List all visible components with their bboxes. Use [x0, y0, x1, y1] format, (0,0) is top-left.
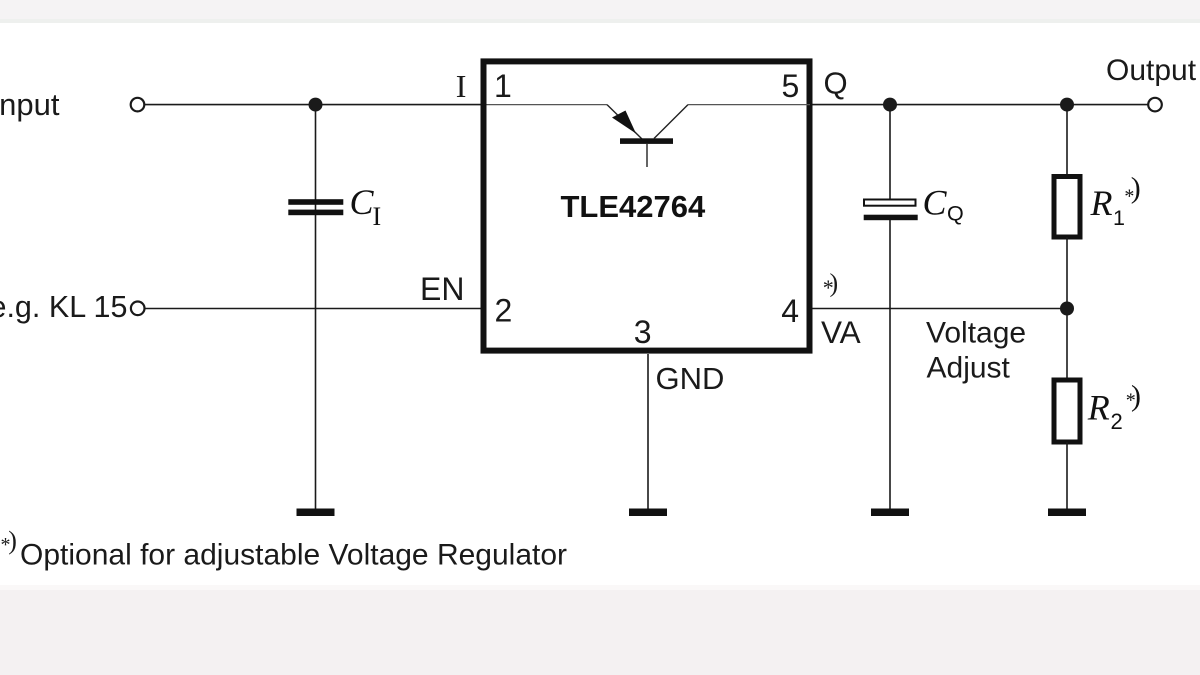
ground R2 [1048, 509, 1086, 517]
svg-text:I: I [373, 202, 382, 231]
label Voltage Adjust [926, 317, 1026, 385]
svg-text:C: C [350, 182, 375, 222]
wire R1 top [1066, 105, 1068, 176]
svg-text:I: I [456, 68, 467, 104]
capacitor C_Q [864, 200, 918, 221]
wire R2 bottom [1066, 442, 1068, 509]
svg-text:Adjust: Adjust [927, 352, 1011, 385]
svg-text:5: 5 [782, 68, 800, 104]
terminal e.g. KL 15 [131, 302, 145, 316]
wire output rail [813, 104, 1149, 106]
wire C_Q branch top [889, 105, 891, 199]
wire R2 top [1066, 309, 1068, 381]
svg-text:): ) [1131, 379, 1141, 412]
svg-text:C: C [923, 183, 948, 223]
svg-text:2: 2 [1111, 409, 1123, 434]
svg-text:TLE42764: TLE42764 [561, 189, 707, 224]
svg-text:Optional for adjustable Voltag: Optional for adjustable Voltage Regulato… [20, 539, 567, 572]
svg-text:EN: EN [420, 271, 464, 307]
svg-text:): ) [1131, 171, 1141, 204]
input terminal [131, 98, 145, 112]
label star pin4 [823, 268, 838, 300]
svg-text:Q: Q [824, 66, 848, 101]
ground GND pin [629, 509, 667, 517]
capacitor C_I [288, 199, 343, 215]
node R1 top junction [1060, 98, 1074, 112]
svg-text:Voltage: Voltage [926, 317, 1026, 350]
resistor R2 [1054, 380, 1080, 442]
wire C_I branch [315, 105, 317, 509]
node VA junction [1060, 302, 1074, 316]
svg-text:1: 1 [494, 68, 512, 104]
svg-text:Q: Q [947, 202, 964, 226]
svg-text:2: 2 [495, 293, 513, 329]
svg-text:4: 4 [781, 293, 799, 329]
svg-text:): ) [8, 526, 17, 555]
svg-text:1: 1 [1113, 206, 1125, 230]
svg-text:R: R [1087, 388, 1110, 428]
ground C_I [297, 509, 335, 517]
label R1 [1090, 171, 1141, 230]
svg-text:Input: Input [0, 87, 60, 122]
svg-text:VA: VA [821, 314, 861, 350]
wire R1 bottom [1066, 237, 1068, 309]
wire EN rail [145, 308, 484, 310]
label C_I [350, 182, 382, 231]
footnote optional [1, 526, 568, 572]
svg-text:e.g. KL 15: e.g. KL 15 [0, 290, 127, 324]
wire input rail [144, 104, 483, 106]
wire pin3 to ground [647, 354, 649, 509]
label C_Q [923, 183, 964, 226]
resistor R1 [1054, 177, 1080, 238]
label R2 [1087, 379, 1141, 434]
svg-text:R: R [1090, 183, 1113, 223]
node input junction [309, 98, 323, 112]
svg-text:GND: GND [656, 361, 725, 396]
output terminal [1148, 98, 1162, 112]
svg-text:Output: Output [1106, 54, 1197, 87]
ground C_Q [871, 509, 909, 517]
op-amp U1 TLE42764 box [484, 61, 810, 350]
wire pin4 VA rail [813, 308, 1068, 310]
wire C_Q branch bottom [889, 220, 891, 509]
transistor Q1 [487, 105, 811, 167]
node C_Q junction [883, 98, 897, 112]
svg-text:): ) [830, 268, 839, 297]
svg-text:3: 3 [634, 314, 652, 350]
